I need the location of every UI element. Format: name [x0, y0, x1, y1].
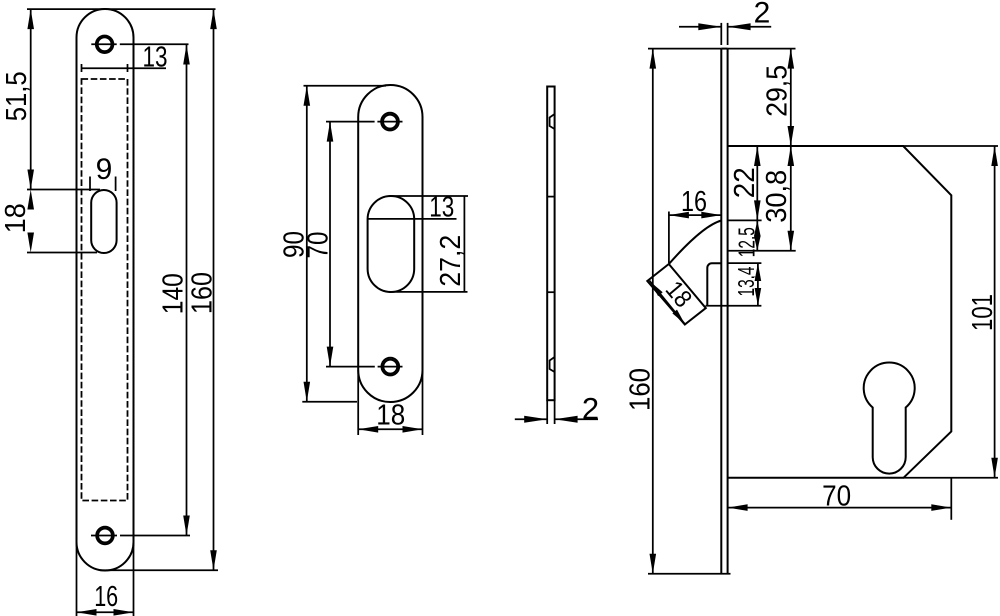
- oval slot: [91, 190, 116, 253]
- thin plate outline: [547, 87, 554, 401]
- plate top extension line (right side): [728, 48, 796, 50]
- faceplate edge (right view): [720, 49, 722, 574]
- dimension 27,2 line: [463, 196, 465, 292]
- bottom screw hole (middle): [382, 358, 400, 376]
- extension lines for top thickness dimension: [720, 23, 722, 45]
- top countersink mark: [550, 114, 555, 129]
- case top extension line to 101 dimension: [903, 145, 998, 147]
- dimension 16 extension line (right view): [668, 212, 670, 264]
- dimension 13 line (middle): [368, 218, 457, 220]
- faceplate side extension lines to bottom dimension: [357, 370, 359, 435]
- svg-text:27,2: 27,2: [435, 235, 467, 287]
- dimension 70 line (middle): [329, 122, 331, 367]
- svg-text:13,4: 13,4: [733, 267, 759, 297]
- svg-text:101: 101: [967, 294, 999, 331]
- dimension 29,5 line: [790, 49, 792, 146]
- svg-text:13: 13: [429, 192, 454, 224]
- dimension 18 line (middle bottom): [358, 428, 422, 430]
- feature line at y=305.7: [706, 305, 762, 307]
- bottom screw hole center line: [91, 535, 117, 537]
- dimension 101 line: [994, 146, 996, 478]
- case bottom extension line to 101 dimension: [904, 477, 999, 479]
- dimension 13 line (left): [82, 67, 167, 69]
- extension line at oval bottom (27,2 bottom): [389, 291, 468, 293]
- case right extension line to 70 dimension: [950, 478, 952, 520]
- divider line at oval top: [547, 196, 554, 198]
- dimension 12,5 line: [756, 220, 758, 250]
- extension line at oval top: [27, 189, 100, 191]
- dimension 2 line (thin view): [515, 418, 547, 420]
- dimension 160 line (left view): [213, 9, 215, 570]
- svg-text:160: 160: [625, 368, 657, 411]
- svg-text:140: 140: [158, 273, 190, 314]
- top screw hole: [96, 36, 113, 53]
- svg-text:22: 22: [729, 167, 761, 198]
- svg-text:18: 18: [660, 276, 698, 313]
- svg-text:13: 13: [143, 42, 168, 74]
- plate top extension line (left side): [648, 48, 721, 50]
- svg-text:2: 2: [582, 391, 599, 426]
- dimension 18 line (diagonal, right view): [649, 281, 685, 325]
- bent tab S-curve: [669, 221, 722, 265]
- svg-text:12,5: 12,5: [733, 227, 759, 257]
- dimension 18 line (left): [27, 190, 34, 210]
- dimension 70 line (right view): [728, 507, 952, 509]
- dimension 16 line (left bottom): [77, 611, 134, 613]
- euro profile cylinder hole: [864, 363, 915, 474]
- bottom screw hole center line (middle): [326, 366, 375, 368]
- dimension 16 line (right view): [669, 214, 721, 216]
- dimension 9 ticks: [89, 177, 91, 192]
- svg-text:160: 160: [187, 272, 219, 314]
- divider line at oval bottom: [547, 291, 554, 293]
- bottom screw hole: [96, 527, 113, 544]
- top screw hole center line: [91, 43, 116, 45]
- extension line at oval top (27,2 top): [389, 195, 468, 197]
- notch between tab and plate: [707, 263, 721, 306]
- extension line at oval bottom: [27, 252, 97, 254]
- dimension 140 line: [186, 45, 188, 536]
- feature line at y=250.8: [728, 250, 796, 252]
- svg-text:18: 18: [376, 400, 405, 432]
- svg-text:2: 2: [754, 0, 771, 30]
- faceplate outline (left view): [77, 9, 134, 571]
- central oval cutout: [368, 196, 415, 292]
- svg-text:16: 16: [681, 186, 707, 218]
- dimension 22 line: [756, 146, 758, 220]
- feature line at y=220.4: [728, 219, 762, 221]
- dimension 13,4 line: [757, 263, 759, 306]
- svg-text:16: 16: [94, 581, 118, 613]
- extension line at plate bottom (middle): [302, 401, 357, 403]
- svg-text:51,5: 51,5: [1, 71, 33, 121]
- dimension 2 line (right view top): [679, 26, 721, 28]
- extension line at plate top (middle): [304, 85, 387, 87]
- svg-text:30,8: 30,8: [761, 170, 793, 223]
- dimension 90 line: [306, 86, 308, 402]
- dimension 160 line (right view): [652, 49, 654, 574]
- top extension line: [27, 8, 216, 10]
- svg-text:29,5: 29,5: [761, 65, 793, 117]
- svg-text:18: 18: [0, 203, 32, 233]
- dimension 51,5 line: [30, 9, 32, 189]
- svg-text:70: 70: [303, 232, 335, 259]
- extension lines for thickness dimension: [546, 400, 548, 424]
- bent tab rectangle: [647, 264, 706, 325]
- feature line at y=263.1: [728, 262, 762, 264]
- bottom countersink mark: [550, 357, 555, 372]
- faceplate side extension lines to bottom dimension: [76, 542, 78, 616]
- dimension 13 ticks (left): [81, 64, 83, 72]
- top screw hole center line (middle): [326, 121, 375, 123]
- extension line at plate bottom: [100, 569, 218, 571]
- plate bottom extension line: [648, 573, 731, 575]
- svg-text:9: 9: [96, 153, 113, 186]
- lock case outline: [728, 146, 952, 478]
- dimension 30,8 line: [790, 146, 792, 251]
- top screw hole (middle): [381, 113, 399, 131]
- faceplate outline (middle view): [358, 85, 422, 402]
- dashed cutout rectangle: [82, 79, 128, 501]
- svg-text:70: 70: [822, 481, 851, 513]
